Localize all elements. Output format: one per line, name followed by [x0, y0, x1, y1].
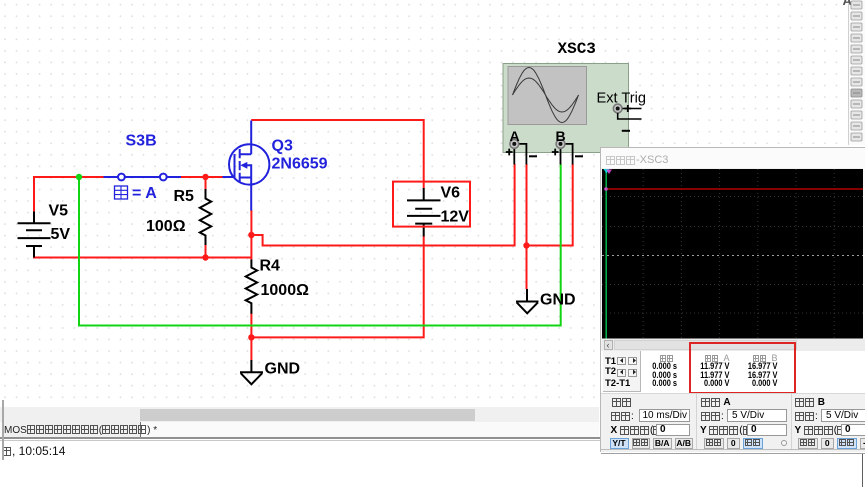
svg-text:GND: GND [540, 292, 576, 309]
channel A buttons [704, 438, 724, 449]
wire: R4 top red lead [250, 235, 252, 260]
svg-text:A: A [510, 128, 520, 144]
svg-text:S3B: S3B [126, 133, 157, 150]
svg-text:Q3: Q3 [272, 138, 293, 155]
junction node ground net [523, 242, 529, 248]
svg-text:= A: = A [132, 185, 157, 202]
mosfet body arrow [240, 162, 247, 169]
channel A section [701, 397, 731, 408]
selection box V6 [393, 182, 470, 227]
ground near scope [516, 289, 539, 313]
svg-text:5V: 5V [51, 226, 71, 243]
design tab bar [0, 422, 599, 438]
oscilloscope icon XSC3 [503, 64, 629, 153]
timebase buttons [610, 438, 629, 449]
wire: V5 top to rail corner [34, 177, 104, 212]
timebase section [612, 397, 632, 407]
resistor R5 [200, 189, 211, 246]
wire: source down to junction [250, 210, 252, 235]
bottom scrollbar of canvas [0, 407, 599, 422]
junction node R5 top [202, 174, 208, 180]
svg-text:2N6659: 2N6659 [272, 156, 328, 173]
right instrument toolbar [848, 0, 865, 145]
svg-text:12V: 12V [441, 209, 470, 226]
wire: green net V5 top to channel B plus [79, 164, 561, 326]
svg-text:B: B [556, 128, 566, 144]
column headers [660, 353, 674, 363]
red annotation rectangle [689, 342, 796, 395]
wire: V5 bottom rail [34, 247, 252, 258]
terminal A [506, 140, 537, 165]
wire: drain top wire to V6 [251, 120, 424, 189]
svg-text:R4: R4 [260, 258, 281, 275]
measurements panel [601, 351, 865, 394]
battery V6 [407, 188, 441, 237]
T1 T2 box [603, 351, 642, 392]
battery V5 [18, 212, 51, 258]
svg-text:R5: R5 [174, 188, 195, 205]
status bar time text [3, 444, 65, 458]
T arrows [617, 357, 626, 365]
toolbar letter A [843, 0, 852, 8]
channel B section [795, 397, 825, 408]
screen [602, 169, 863, 339]
svg-text:V6: V6 [441, 185, 461, 202]
channel B buttons [798, 438, 818, 449]
title bar [601, 148, 865, 168]
design tab label [4, 425, 157, 436]
controls area [601, 393, 865, 449]
left window edge line [2, 400, 4, 460]
measurement values [637, 361, 677, 372]
junction node R5 bottom [202, 254, 208, 260]
junction node source/R4 [248, 232, 254, 238]
junction node R4 bottom [248, 334, 254, 340]
switch S3B [104, 174, 182, 181]
svg-text:100Ω: 100Ω [146, 218, 186, 235]
ground under R4 [240, 360, 263, 384]
terminal Ext Trig [613, 104, 641, 131]
mosfet Q3 [223, 121, 270, 211]
scope scrollbar [602, 339, 865, 351]
label key = A [115, 185, 158, 202]
svg-text:XSC3: XSC3 [558, 40, 596, 58]
resistor R4 [246, 260, 257, 314]
svg-text:1000Ω: 1000Ω [261, 282, 310, 299]
wire: source junction step to channel A plus [251, 164, 514, 246]
svg-text:V5: V5 [49, 203, 69, 220]
terminal B [552, 140, 583, 165]
window bottom edge [601, 449, 865, 450]
junction green node at V5 [76, 174, 82, 180]
right toolbar icons [848, 0, 865, 146]
wire: rail switch-to-R5 and to gate (red part) [181, 176, 223, 178]
red stubs R5 [205, 177, 207, 258]
svg-text:GND: GND [265, 361, 301, 378]
wire: R4 bottom to V6 bottom [251, 236, 423, 361]
wire: ground net A minus / B minus / GND [527, 164, 573, 289]
svg-text:Ext Trig: Ext Trig [597, 91, 646, 107]
